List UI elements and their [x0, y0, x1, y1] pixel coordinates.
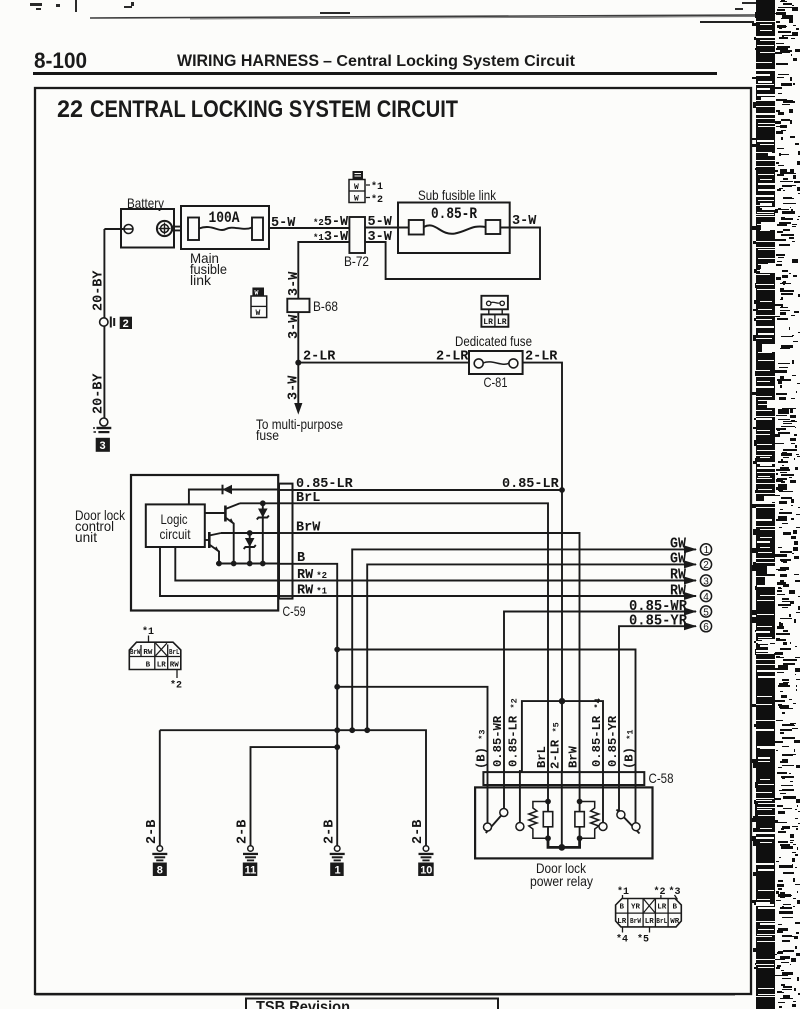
- contact pin7: [599, 823, 607, 831]
- svg-text:(B) *1: (B) *1: [622, 730, 636, 769]
- relay box: [475, 787, 652, 858]
- svg-text:2-B: 2-B: [145, 820, 160, 844]
- wire GW 2 riser and line: [367, 564, 696, 730]
- zener diode Z2: [244, 533, 256, 564]
- node on BrL line: [260, 500, 266, 506]
- svg-text:unit: unit: [75, 529, 97, 545]
- wire GW 1 riser and line: [352, 549, 696, 730]
- svg-text:RW: RW: [170, 661, 180, 669]
- svg-text:LR: LR: [657, 904, 667, 912]
- svg-text:power relay: power relay: [530, 873, 593, 889]
- svg-text:3-W: 3-W: [287, 271, 302, 296]
- left branch 20-BY wire lower: [103, 326, 105, 418]
- svg-text:5-W: 5-W: [271, 216, 296, 231]
- logic circuit box: [146, 504, 205, 547]
- arrowhead 4: [684, 592, 697, 600]
- svg-text:GW: GW: [670, 551, 686, 568]
- svg-text:3-W: 3-W: [512, 214, 537, 229]
- arrowhead 6: [684, 622, 697, 630]
- svg-text:22: 22: [57, 96, 83, 123]
- connector B-68: [287, 299, 309, 312]
- top scan artifacts: [30, 0, 756, 14]
- node on BrW line: [247, 530, 253, 536]
- sub fusible link box: [398, 203, 510, 254]
- svg-text:W: W: [354, 183, 359, 192]
- svg-text:10: 10: [420, 864, 432, 876]
- svg-text:2: 2: [123, 318, 129, 330]
- relay coil 1 node top: [545, 799, 551, 805]
- transistor Q2: [205, 532, 221, 564]
- right switch arm: [617, 810, 640, 834]
- fuse C-81 box: [469, 351, 523, 374]
- main fusible link element left: [188, 218, 199, 241]
- svg-text:B: B: [297, 551, 305, 566]
- svg-text:2-B: 2-B: [236, 820, 251, 844]
- arrowhead 2: [684, 560, 697, 568]
- svg-text:3-W: 3-W: [287, 314, 302, 339]
- svg-text:CENTRAL LOCKING SYSTEM CIRCUIT: CENTRAL LOCKING SYSTEM CIRCUIT: [90, 96, 458, 123]
- svg-text:BrL: BrL: [535, 746, 549, 768]
- svg-text:*2: *2: [371, 194, 383, 206]
- svg-text:BrL: BrL: [656, 918, 667, 926]
- circle terminal 1: [700, 544, 711, 555]
- connector strip C-59: [279, 484, 293, 599]
- svg-text:*5: *5: [637, 934, 649, 946]
- svg-text:LR: LR: [645, 918, 655, 926]
- circle terminal 3: [700, 575, 711, 586]
- svg-text:*25-W: *25-W: [313, 215, 349, 230]
- svg-text:Logic: Logic: [161, 511, 188, 527]
- svg-text:B-72: B-72: [344, 253, 369, 269]
- wire BrL inside (collector line): [240, 502, 279, 504]
- ground 8 riser: [159, 730, 161, 845]
- svg-text:TSB Revision: TSB Revision: [256, 999, 350, 1009]
- ground bus: [160, 730, 426, 845]
- svg-text:C-81: C-81: [484, 374, 508, 390]
- wire 3-W loop from B-72: [365, 228, 540, 280]
- wire 0.85-LR from C-59: [293, 489, 563, 491]
- svg-text:LR: LR: [483, 318, 493, 327]
- node 0.85-LR split: [559, 698, 565, 704]
- ground symbol 10: [418, 846, 434, 877]
- svg-text:0.85-LR *2: 0.85-LR *2: [507, 698, 521, 767]
- node 0.85-LR junction: [559, 487, 565, 493]
- wire to relay (B)*3: [337, 687, 487, 772]
- wire 0.85-YR to arrow 6: [619, 626, 696, 772]
- sub fusible link element left: [409, 220, 424, 235]
- svg-text:BrL: BrL: [169, 649, 180, 657]
- node on B riser at 649.5: [334, 647, 340, 653]
- connector strip C-58: [483, 772, 644, 785]
- left switch contact lower: [484, 823, 492, 831]
- zener diode Z1: [257, 503, 269, 563]
- wire RW*1 from C-59 to arrow 4: [293, 595, 697, 597]
- main fusible link element right: [252, 218, 263, 241]
- svg-text:RW*1: RW*1: [297, 584, 328, 599]
- circle terminal 2: [700, 559, 711, 570]
- svg-text:1: 1: [704, 545, 710, 556]
- svg-text:RW: RW: [143, 649, 153, 657]
- svg-text:*1: *1: [371, 181, 383, 193]
- ground symbol 11: [243, 846, 258, 877]
- battery box: [121, 209, 174, 248]
- main fusible link box: [181, 206, 269, 249]
- wire stubs across C-59 strip: [279, 490, 293, 596]
- svg-text:1: 1: [335, 864, 341, 876]
- common node: [558, 844, 565, 851]
- wire 3-W left of B-72: [298, 242, 349, 363]
- wire RW*2 from logic: [175, 547, 279, 581]
- header rule: [33, 72, 717, 75]
- wire 5-W B-72 to sub fusible link: [365, 227, 409, 229]
- svg-text:RW*2: RW*2: [297, 568, 327, 583]
- ground 11 branch: [251, 747, 338, 845]
- connector icon C-58 pinout: [616, 886, 682, 946]
- svg-text:20-BY: 20-BY: [92, 373, 107, 414]
- wire RW*1 from logic: [160, 547, 279, 596]
- svg-text:RW: RW: [670, 583, 686, 600]
- connector icon left of B-68: [251, 288, 267, 319]
- svg-text:0.85-YR: 0.85-YR: [606, 715, 620, 767]
- wire BrW from C-59: [293, 533, 580, 772]
- svg-text:*3: *3: [669, 886, 681, 898]
- svg-text:B-68: B-68: [313, 298, 338, 314]
- node at 747.1: [334, 744, 340, 750]
- svg-text:3: 3: [100, 440, 106, 452]
- ground symbol 1: [330, 846, 345, 877]
- svg-text:link: link: [190, 272, 212, 288]
- left branch 20-BY wire upper: [103, 229, 105, 318]
- right switch contact lower: [632, 823, 640, 831]
- svg-text:B: B: [619, 904, 624, 912]
- sub fusible link wavy element: [424, 225, 486, 233]
- right top short rule: [700, 21, 754, 23]
- battery plus terminal: [157, 221, 172, 236]
- arrowhead 3: [684, 577, 697, 585]
- ground symbol 3: [93, 418, 111, 452]
- relay coil 2 box: [579, 802, 581, 839]
- transistor Q1: [205, 503, 240, 563]
- svg-text:3-W: 3-W: [287, 375, 302, 400]
- svg-text:0.85-LR: 0.85-LR: [296, 477, 354, 492]
- svg-text:WR: WR: [670, 918, 680, 926]
- wire 2-LR junction to dedicated fuse: [298, 362, 469, 364]
- svg-text:B: B: [146, 661, 151, 669]
- relay coil 1 resistor loop: [529, 802, 548, 839]
- wire logic top to diode line: [189, 490, 279, 505]
- circle terminal 6: [700, 621, 711, 632]
- wire 2-LR *5 to strip: [561, 701, 563, 772]
- svg-text:*2: *2: [170, 680, 182, 692]
- svg-text:BrW: BrW: [296, 521, 321, 536]
- wire battery to left branch: [104, 228, 124, 230]
- inline connector symbol with box 2: [100, 318, 108, 326]
- bus node GW2 riser: [364, 727, 370, 733]
- svg-text:BrW: BrW: [566, 745, 580, 768]
- wire 2-LR fuse to down corner: [523, 363, 562, 490]
- wire B from C-59: [293, 564, 338, 846]
- svg-text:2-B: 2-B: [322, 820, 337, 844]
- svg-text:0.85-WR: 0.85-WR: [491, 715, 505, 767]
- bus node GW1 riser: [349, 727, 355, 733]
- thick common link right: [562, 838, 580, 847]
- svg-text:2-LR *5: 2-LR *5: [549, 722, 563, 769]
- svg-text:YR: YR: [631, 904, 641, 912]
- svg-text:circuit: circuit: [160, 526, 191, 542]
- ground symbol 8: [152, 846, 167, 877]
- junction node 2-LR: [295, 360, 301, 366]
- connector icon above B-72: [349, 171, 383, 206]
- svg-text:0.85-LR: 0.85-LR: [502, 477, 560, 492]
- svg-text:2-B: 2-B: [411, 820, 426, 844]
- battery left terminal: [124, 225, 133, 234]
- relay coil 2 node top: [577, 799, 583, 805]
- relay coil 2 node bottom: [577, 835, 583, 841]
- bus node at B riser: [334, 727, 340, 733]
- top faint scan line: [90, 15, 755, 18]
- svg-text:6: 6: [703, 622, 709, 633]
- connector icon C-59 pinout: [129, 626, 182, 692]
- svg-text:LR: LR: [157, 661, 167, 669]
- svg-text:fuse: fuse: [256, 427, 279, 443]
- dedicated fuse icon: [481, 296, 508, 327]
- svg-text:Dedicated fuse: Dedicated fuse: [455, 333, 532, 349]
- svg-text:2: 2: [703, 560, 709, 571]
- wire BrW inside (collector line): [221, 532, 279, 534]
- wire 5-W to B-72: [269, 227, 349, 229]
- svg-text:Sub fusible link: Sub fusible link: [418, 187, 497, 203]
- diode D1: [223, 485, 233, 495]
- node on B riser at 686.8: [334, 684, 340, 690]
- relay coil 1 box: [547, 802, 549, 839]
- sub fusible link element right: [486, 220, 501, 234]
- svg-text:– Central Locking System Circu: – Central Locking System Circuit: [323, 53, 575, 70]
- svg-text:4: 4: [703, 592, 709, 603]
- svg-text:11: 11: [245, 864, 257, 876]
- bottom page line: [35, 994, 735, 996]
- wire BrL from C-59: [293, 503, 549, 772]
- svg-text:WIRING HARNESS: WIRING HARNESS: [177, 51, 319, 70]
- arrowhead 1: [684, 545, 697, 553]
- svg-text:0.85-LR *4: 0.85-LR *4: [590, 698, 604, 767]
- circle terminal 5: [700, 606, 711, 617]
- relay coil 2 resistor loop: [580, 802, 599, 839]
- svg-text:*2: *2: [654, 886, 666, 898]
- connector B-72: [349, 217, 365, 253]
- wire 0.85-LR down to relay: [561, 490, 563, 701]
- relay pin stubs through strip: [488, 770, 636, 847]
- svg-text:20-BY: 20-BY: [92, 270, 107, 311]
- arrow to multi-purpose fuse: [297, 363, 299, 403]
- svg-text:0.85-YR: 0.85-YR: [629, 613, 687, 630]
- svg-text:3: 3: [703, 576, 709, 587]
- wire 0.85-LR split header: [522, 701, 603, 772]
- ground bus inside unit (B line): [216, 563, 279, 565]
- wire 0.85-WR to arrow 5: [504, 612, 696, 773]
- svg-text:BrW: BrW: [130, 649, 141, 657]
- right edge scan noise band: [752, 0, 800, 1009]
- thick common link left: [548, 838, 562, 847]
- svg-text:0.85-R: 0.85-R: [431, 205, 477, 223]
- svg-text:8-100: 8-100: [34, 48, 87, 73]
- svg-text:B: B: [672, 904, 677, 912]
- svg-text:BrL: BrL: [296, 491, 320, 506]
- wire to relay (B)*1: [337, 650, 635, 773]
- svg-text:100A: 100A: [209, 209, 240, 227]
- contact pin3: [516, 823, 524, 831]
- svg-text:5: 5: [703, 607, 709, 618]
- right switch contact upper: [617, 811, 625, 819]
- relay coil 1 node bottom: [545, 835, 551, 841]
- TSB Revision box: [246, 999, 498, 1009]
- main fusible link wavy element: [199, 227, 252, 230]
- svg-text:LR: LR: [497, 318, 507, 327]
- wire RW*2 from C-59 to arrow 3: [293, 580, 697, 582]
- left switch arm: [486, 810, 507, 834]
- svg-text:*4: *4: [616, 934, 628, 946]
- svg-text:LR: LR: [617, 918, 627, 926]
- svg-text:W: W: [256, 309, 261, 318]
- svg-text:C-59: C-59: [283, 603, 306, 619]
- svg-text:(B) *3: (B) *3: [474, 730, 488, 769]
- left switch contact upper: [500, 809, 508, 817]
- svg-text:RW: RW: [670, 567, 686, 584]
- bus nodes: [216, 561, 222, 567]
- svg-text:BrW: BrW: [630, 918, 642, 926]
- door lock control unit box: [131, 475, 278, 611]
- svg-text:2-LR: 2-LR: [436, 350, 469, 365]
- svg-text:8: 8: [157, 864, 163, 876]
- arrowhead 5: [684, 608, 697, 616]
- wire battery plus to fusible link (double): [172, 227, 181, 231]
- svg-text:C-58: C-58: [649, 770, 674, 786]
- circle terminal 4: [700, 590, 711, 601]
- svg-text:W: W: [354, 195, 359, 204]
